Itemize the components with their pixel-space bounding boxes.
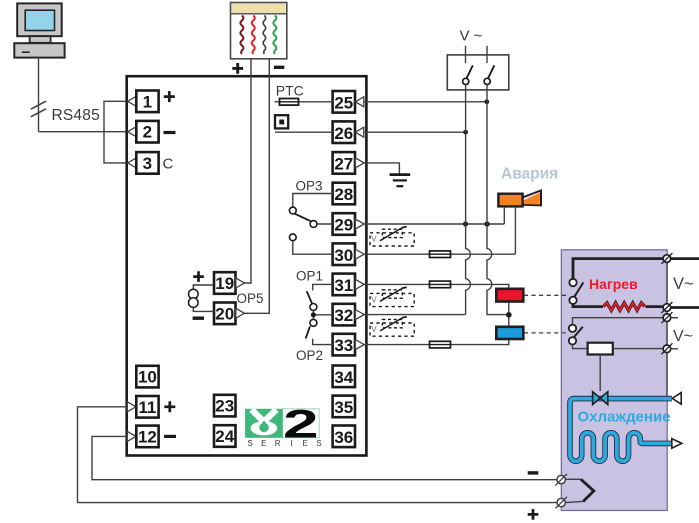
svg-text:35: 35	[334, 398, 353, 417]
svg-text:Нагрев: Нагрев	[589, 276, 638, 292]
svg-text:V: V	[371, 295, 377, 304]
supply switch box	[447, 55, 509, 90]
cooler circuit wire top	[573, 318, 664, 325]
svg-text:10: 10	[138, 368, 157, 387]
brand logo delta-2 series	[245, 402, 319, 446]
heater/sensor bundle box at top	[231, 3, 287, 59]
wire alarm leg 2	[514, 206, 516, 254]
wire from terminal 11 to panel	[78, 407, 558, 503]
svg-text:25: 25	[334, 93, 353, 112]
label + for terminal 1	[164, 91, 175, 102]
wire sensor right lead to terminal 20	[244, 59, 269, 313]
label - bottom	[528, 471, 539, 474]
snubber module 1 (rows 29-30)	[370, 227, 414, 246]
svg-text:OP5: OP5	[237, 291, 264, 306]
svg-text:R: R	[275, 439, 281, 448]
label SERIES	[247, 439, 321, 448]
fuse F3 row 33	[430, 341, 451, 348]
svg-text:Охлаждение: Охлаждение	[578, 408, 671, 425]
label - for terminal 12	[164, 435, 176, 438]
svg-text:RS485: RS485	[52, 107, 100, 124]
label V~ supply	[460, 28, 483, 45]
terminal 3	[128, 152, 159, 174]
terminal 19	[214, 272, 244, 294]
terminal 10	[136, 366, 158, 388]
process panel (load enclosure)	[561, 250, 667, 511]
wire panel right edge bus	[666, 259, 668, 397]
computer (PC for RS485)	[14, 3, 64, 57]
wire current-source to terminal 20	[193, 307, 214, 311]
heater circuit wire to element	[573, 304, 603, 307]
label V~ cooler	[673, 328, 693, 345]
label + bottom	[528, 509, 539, 520]
heater circuit wire to terminal	[646, 305, 664, 308]
svg-text:S: S	[316, 439, 321, 448]
junction dot row25 / pole B	[484, 99, 489, 104]
terminal 36	[333, 426, 355, 448]
wire bus terminals 1-3	[104, 101, 128, 163]
wavy element black	[263, 16, 266, 55]
svg-text:V~: V~	[673, 275, 694, 293]
wavy element red	[252, 16, 255, 55]
label PTC	[276, 82, 304, 98]
label OP5	[237, 291, 264, 306]
svg-text:36: 36	[334, 428, 353, 447]
wire terminal2 to computer	[39, 131, 128, 133]
alarm horn	[498, 190, 541, 206]
label + for terminal 19	[193, 271, 204, 282]
label OP1	[296, 269, 323, 284]
wire actuator to terminal	[613, 348, 663, 350]
wire row 25 to supply pole B	[364, 101, 487, 103]
wavy element dark red	[240, 16, 243, 55]
svg-text:E: E	[303, 439, 308, 448]
valve (bowtie)	[593, 392, 608, 405]
wire from terminal 12 to panel	[92, 436, 557, 479]
junction dot row29 / pole B	[484, 221, 489, 226]
heater circuit thick wire top	[573, 259, 667, 279]
svg-text:11: 11	[138, 398, 156, 417]
terminal 2	[128, 121, 159, 143]
terminal 27	[333, 152, 365, 174]
dashed link cool relay to cooler switch	[524, 332, 566, 334]
junction dot row29 / pole A	[463, 221, 468, 226]
label + sensor	[232, 63, 243, 74]
svg-text:19: 19	[215, 274, 234, 293]
svg-text:V ~: V ~	[460, 28, 483, 45]
junction dot relays / pole B	[506, 312, 512, 318]
label OP3	[296, 178, 323, 193]
svg-text:V~: V~	[673, 328, 693, 345]
svg-text:V: V	[371, 325, 377, 334]
wire terminal 27 to ground	[364, 163, 399, 174]
fuse F2 row 31	[430, 281, 451, 288]
fuse F1 row 30	[430, 251, 451, 258]
terminal 33	[333, 334, 365, 356]
svg-text:V: V	[371, 235, 377, 244]
svg-text:PTC: PTC	[276, 82, 304, 98]
wire row 32 to pole A	[364, 314, 465, 316]
snubber module 2 (rows 31-32)	[370, 287, 414, 306]
label OP2	[296, 348, 323, 363]
svg-text:34: 34	[334, 368, 353, 387]
wire pole B down (with hops over rows 30,31)	[487, 85, 506, 315]
current source symbol (two circles)	[189, 289, 199, 307]
coolant pipe	[570, 399, 672, 462]
svg-text:26: 26	[334, 124, 353, 143]
cool relay (blue)	[496, 327, 523, 339]
wire row 26 to supply pole A	[364, 131, 466, 133]
terminal 12	[127, 426, 158, 448]
label - sensor	[274, 66, 284, 69]
wire alarm leg 1	[503, 206, 505, 224]
label Авария	[501, 166, 558, 183]
svg-text:I: I	[290, 439, 292, 448]
junction dot row26 / pole A	[463, 130, 468, 135]
terminal 29	[333, 213, 365, 235]
svg-text:OP2: OP2	[296, 348, 323, 363]
valve actuator box	[588, 343, 613, 355]
terminal 25	[333, 91, 364, 113]
wire pole A down (with hops over rows 30,31)	[466, 85, 471, 315]
terminal 28	[333, 183, 355, 205]
wire cooler switch to actuator	[573, 345, 588, 349]
terminal 30	[333, 243, 365, 265]
wire heater supply top	[671, 257, 699, 260]
panel input circle lower	[555, 497, 567, 509]
svg-text:3: 3	[143, 154, 152, 173]
wire cooler supply stub bottom	[671, 348, 678, 350]
svg-text:OP1: OP1	[296, 269, 323, 284]
controller main box U1	[127, 76, 367, 455]
switch pole B	[484, 46, 494, 85]
svg-text:2: 2	[143, 123, 152, 142]
ground	[390, 175, 411, 187]
label C for terminal 3	[163, 156, 174, 173]
PTC probe symbol (fuse-style) on row 25	[275, 99, 333, 106]
wire cooler supply stub top	[671, 317, 678, 319]
terminal 34	[333, 366, 355, 388]
panel terminal circle top (heater L)	[661, 253, 672, 264]
dashed link heat relay to heater switch	[524, 294, 568, 296]
wire common of OP1/OP2 to terminal 32	[313, 311, 332, 320]
terminal 31	[333, 274, 365, 296]
relay OP1 contact	[307, 284, 333, 310]
svg-text:32: 32	[334, 306, 353, 325]
heater switch	[569, 279, 583, 304]
label - for terminal 2	[164, 131, 176, 134]
svg-text:29: 29	[334, 216, 353, 235]
wire computer stem	[38, 58, 40, 132]
svg-text:C: C	[163, 156, 174, 173]
panel input circle upper	[555, 474, 567, 486]
label V~ heater	[673, 275, 694, 293]
wire between relays	[508, 302, 510, 327]
coolant inlet arrow	[672, 393, 681, 405]
label + for terminal 11	[164, 401, 175, 412]
label RS485	[52, 107, 100, 124]
coolant outlet arrow	[672, 439, 682, 449]
switch pole A	[463, 46, 473, 85]
svg-text:S: S	[247, 439, 252, 448]
label Нагрев	[589, 276, 638, 292]
heat relay (red)	[496, 289, 523, 302]
cooler switch	[569, 325, 583, 345]
label Охлаждение	[578, 408, 671, 425]
wire sensor left lead to terminal 19	[244, 59, 251, 283]
wire row 33 to cool relay	[364, 339, 509, 345]
svg-text:OP3: OP3	[296, 178, 323, 193]
wire heater supply bottom	[671, 306, 699, 309]
svg-text:31: 31	[334, 276, 353, 295]
wire row 30	[364, 253, 515, 255]
svg-text:20: 20	[215, 304, 234, 323]
svg-text:Авария: Авария	[501, 166, 558, 183]
terminal 35	[333, 396, 355, 418]
junction dot OP1/OP2 common	[311, 312, 316, 317]
wire valve stem	[599, 355, 601, 391]
svg-text:24: 24	[215, 427, 234, 446]
relay OP2 contact	[306, 319, 333, 344]
svg-text:27: 27	[334, 155, 353, 174]
heating element (red zigzag)	[604, 303, 645, 311]
svg-text:30: 30	[334, 246, 353, 265]
relay OP3 contact	[289, 194, 332, 255]
label - for terminal 20	[193, 317, 204, 320]
wire row 26 inner	[275, 131, 333, 133]
terminal 24	[214, 425, 236, 447]
panel terminal circle (cooler L)	[661, 312, 672, 323]
terminal 20	[214, 303, 244, 325]
wire row 29 to alarm	[364, 223, 504, 225]
svg-text:E: E	[261, 439, 266, 448]
chevron connector	[566, 479, 594, 502]
wire row 31 to heat relay	[364, 284, 509, 289]
terminal 32	[333, 304, 365, 326]
svg-text:2: 2	[283, 402, 319, 446]
svg-text:23: 23	[215, 397, 234, 416]
svg-text:28: 28	[334, 185, 353, 204]
terminal 1	[128, 91, 159, 113]
snubber module 3 (rows 32-33)	[370, 317, 414, 336]
terminal 23	[214, 395, 236, 417]
svg-text:33: 33	[334, 336, 353, 355]
svg-text:12: 12	[138, 427, 157, 446]
terminal 26	[333, 121, 364, 143]
svg-text:1: 1	[143, 92, 152, 111]
wavy element green	[273, 16, 276, 55]
panel terminal circle (cooler N)	[661, 343, 672, 354]
square-in-square sensor icon	[275, 115, 288, 128]
wire terminal 19 to current-source symbol	[193, 285, 214, 289]
break marks on RS485 line	[31, 101, 46, 117]
panel terminal circle (heater N)	[661, 302, 672, 313]
terminal 11	[127, 396, 158, 418]
